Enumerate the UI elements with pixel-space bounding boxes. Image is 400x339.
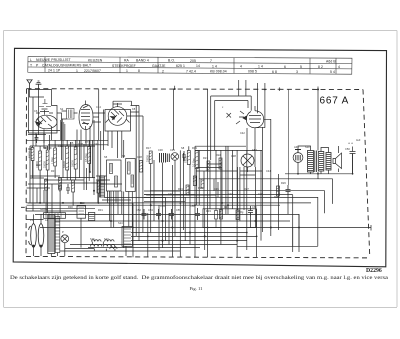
- field coil: [326, 153, 331, 171]
- wire V2 to V3: [77, 113, 105, 172]
- svg-text:R3: R3: [51, 169, 55, 173]
- svg-text:4: 4: [338, 65, 340, 69]
- header table: [28, 57, 352, 75]
- svg-text:C31: C31: [170, 148, 175, 152]
- svg-text:1 4: 1 4: [258, 65, 263, 69]
- svg-text:1: 1: [76, 69, 78, 73]
- capacitor C9: [182, 151, 186, 161]
- svg-text:RA: RA: [124, 59, 130, 63]
- wire rails crossing left: [26, 203, 133, 256]
- capacitor C4: [195, 208, 200, 220]
- wire V1 plate loop: [44, 111, 78, 160]
- mid right tier wires: [196, 146, 262, 214]
- resistor R19: [195, 151, 198, 169]
- svg-text:S6: S6: [122, 154, 126, 158]
- grid cap marks above V1: [39, 99, 51, 107]
- svg-text:8 2: 8 2: [318, 65, 323, 69]
- svg-text:S5: S5: [104, 155, 108, 159]
- svg-text:R24: R24: [178, 187, 183, 191]
- part value labels: [28, 105, 361, 241]
- capacitor C10: [35, 134, 39, 143]
- svg-text:0,5 Meg: 0,5 Meg: [85, 153, 88, 162]
- svg-text:2: 2: [162, 69, 164, 73]
- svg-text:24 1 1P: 24 1 1P: [48, 69, 61, 73]
- loudspeaker cone: [333, 153, 342, 169]
- svg-text:C9: C9: [43, 146, 47, 150]
- resistor R7: [88, 147, 91, 164]
- resistor R5: [66, 146, 69, 170]
- tuning coil L1 ladder: [48, 215, 55, 254]
- capacitor C2: [156, 209, 161, 220]
- svg-text:25000: 25000: [44, 161, 47, 168]
- tube V2 pentode: [79, 101, 93, 130]
- capacitor C1: [142, 209, 147, 220]
- svg-text:7 42.4: 7 42.4: [186, 69, 196, 73]
- svg-text:205: 205: [190, 59, 196, 63]
- svg-text:10000: 10000: [36, 161, 39, 168]
- wire bottom verticals: [133, 146, 299, 257]
- wire tuning indicator: [241, 154, 254, 172]
- IF can lower verticals: [102, 191, 133, 228]
- svg-text:2217/5607: 2217/5607: [84, 69, 101, 73]
- resistor R4: [54, 148, 57, 166]
- svg-text:C21: C21: [94, 142, 99, 146]
- svg-text:C53: C53: [148, 208, 153, 212]
- svg-text:8: 8: [138, 69, 140, 73]
- svg-text:R27: R27: [244, 187, 249, 191]
- tube V3 shield box: [105, 110, 131, 132]
- svg-text:NIEUWE PRIJSLIJST: NIEUWE PRIJSLIJST: [36, 58, 71, 62]
- svg-text:C28: C28: [137, 155, 142, 159]
- cathode wire bundle: [61, 119, 65, 140]
- wire V3 outputs: [104, 101, 143, 158]
- svg-text:R21: R21: [203, 156, 208, 160]
- svg-text:R1: R1: [28, 147, 32, 151]
- svg-text:625 1: 625 1: [176, 64, 185, 68]
- svg-text:R19: R19: [192, 146, 197, 150]
- svg-text:C44: C44: [266, 169, 271, 173]
- wire B+ staircase rails: [26, 179, 371, 251]
- resistor R22: [201, 179, 204, 188]
- smoothing capacitor C+: [348, 142, 356, 174]
- resistor R11: [97, 181, 100, 193]
- svg-text:R30: R30: [68, 205, 73, 209]
- wire mid verticals: [94, 120, 143, 248]
- capacitor C6: [286, 185, 291, 196]
- resistor R8: [45, 179, 48, 190]
- wire left mid connections: [30, 140, 98, 213]
- resistor R14: [207, 161, 210, 171]
- svg-text:C6: C6: [34, 109, 38, 113]
- svg-text:BAND 4: BAND 4: [136, 59, 149, 63]
- hf choke 1: [91, 240, 102, 247]
- svg-text:EB4: EB4: [252, 148, 257, 152]
- svg-text:50000: 50000: [63, 161, 66, 168]
- top feed stubs: [175, 80, 318, 128]
- svg-text:S10: S10: [305, 145, 310, 149]
- svg-text:3: 3: [296, 70, 298, 74]
- svg-text:1 4: 1 4: [212, 64, 217, 68]
- svg-text:S16: S16: [90, 237, 95, 241]
- hf choke 2: [104, 240, 115, 247]
- rotated resistor labels: [29, 151, 196, 168]
- solder junction blobs: [39, 190, 300, 242]
- svg-text:0,2 Meg: 0,2 Meg: [193, 158, 196, 167]
- resistor R12: [220, 210, 223, 220]
- svg-text:GRAM: GRAM: [40, 207, 48, 211]
- svg-text:De schakelaars zijn getekend i: De schakelaars zijn getekend in korte go…: [10, 274, 389, 281]
- volume control coil dark: [100, 176, 105, 197]
- svg-text:C55: C55: [176, 208, 181, 212]
- wire aerial input: [30, 89, 45, 147]
- svg-text:AZ1: AZ1: [294, 145, 299, 149]
- svg-text:S2: S2: [60, 107, 64, 111]
- svg-text:C50: C50: [345, 147, 350, 151]
- junction dots: [61, 145, 354, 237]
- svg-text:70000: 70000: [185, 156, 188, 163]
- svg-text:C40: C40: [258, 192, 263, 196]
- resistor R18: [187, 151, 190, 165]
- svg-text:50000: 50000: [29, 151, 32, 158]
- screen feed wire: [287, 90, 289, 186]
- svg-text:R33: R33: [206, 209, 211, 213]
- resistor R3: [46, 150, 49, 170]
- svg-text:C30: C30: [158, 148, 163, 152]
- svg-text:R17: R17: [146, 146, 151, 150]
- IF can 2 coils: [126, 159, 136, 192]
- svg-text:K8: K8: [132, 107, 136, 111]
- tube V1 screen box: [29, 90, 58, 134]
- svg-text:S8: S8: [181, 146, 185, 150]
- svg-text:1 Meg: 1 Meg: [51, 157, 54, 164]
- svg-text:C14: C14: [96, 105, 101, 109]
- svg-text:5 4: 5 4: [330, 70, 335, 74]
- svg-text:T: T: [30, 63, 32, 67]
- svg-text:Fig. 11: Fig. 11: [190, 286, 204, 291]
- coupling transformer T1: [67, 109, 75, 120]
- resistor R1: [31, 148, 34, 161]
- svg-text:R22: R22: [216, 153, 221, 157]
- switch contact S1: [171, 153, 179, 161]
- resistor R20: [140, 161, 143, 173]
- resistor R10: [72, 180, 75, 192]
- IF can 1: [107, 160, 122, 191]
- svg-text:L: L: [30, 58, 32, 62]
- svg-text:098 5: 098 5: [248, 70, 257, 74]
- capacitor block C8: [167, 154, 169, 163]
- resistor R21: [193, 176, 196, 186]
- wire V4 plate right: [247, 119, 271, 236]
- svg-text:S14: S14: [118, 221, 123, 225]
- svg-text:5: 5: [300, 65, 302, 69]
- resistor R15: [219, 158, 222, 169]
- svg-text:4: 4: [240, 65, 242, 69]
- output transformer secondary: [318, 152, 324, 172]
- tube V4 output pentode: [227, 106, 264, 131]
- resistor R23: [186, 185, 189, 195]
- resistor block bottom: [88, 213, 94, 221]
- svg-text:30000: 30000: [72, 160, 75, 167]
- svg-text:B.O.: B.O.: [168, 59, 175, 63]
- wire power box: [203, 209, 257, 228]
- antenna: [27, 79, 33, 88]
- svg-text:GAATJE: GAATJE: [152, 64, 166, 68]
- svg-text:C60: C60: [252, 205, 257, 209]
- svg-text:CATALOGUSNUMMERS BALT: CATALOGUSNUMMERS BALT: [42, 64, 91, 68]
- svg-text:R5: R5: [70, 141, 74, 145]
- svg-text:S17: S17: [104, 237, 109, 241]
- svg-text:D2296: D2296: [366, 268, 382, 274]
- center verticals pack: [136, 106, 237, 258]
- capacitor C11: [58, 182, 62, 192]
- coil L2: [55, 217, 60, 253]
- svg-text:667 A: 667 A: [320, 96, 350, 107]
- header table row text: [30, 58, 340, 74]
- svg-text:C54: C54: [160, 204, 165, 208]
- capacitor C3: [169, 209, 174, 220]
- svg-text:A6d B: A6d B: [326, 60, 336, 64]
- svg-text:6: 6: [284, 65, 286, 69]
- wire V4 grid loop: [211, 96, 252, 160]
- left lower tier wires: [27, 160, 123, 213]
- caption text: [10, 268, 389, 291]
- pilot lamp: [61, 235, 69, 243]
- resistor R2: [39, 151, 42, 170]
- svg-text:C38: C38: [231, 154, 236, 158]
- svg-text:R36: R36: [274, 195, 279, 199]
- svg-text:Rg: Rg: [240, 210, 244, 214]
- svg-text:1: 1: [126, 69, 128, 73]
- svg-text:14: 14: [196, 64, 200, 68]
- output transformer primary: [308, 151, 317, 173]
- wire top section horizontals: [44, 146, 262, 226]
- resistor R16: [277, 186, 280, 196]
- rectifier tube V5: [293, 150, 303, 163]
- svg-text:C18: C18: [78, 142, 83, 146]
- svg-text:20000: 20000: [147, 155, 150, 162]
- frame aerial loop 1: [21, 207, 36, 247]
- svg-text:C52: C52: [136, 208, 141, 212]
- switch wafer box: [77, 206, 86, 218]
- resistor R13: [236, 210, 239, 220]
- svg-text:6 8: 6 8: [272, 70, 277, 74]
- svg-text:KB 098.04: KB 098.04: [210, 70, 227, 74]
- svg-text:STEEKPROEF: STEEKPROEF: [112, 64, 136, 68]
- resistor R6: [74, 147, 77, 169]
- svg-text:C33: C33: [168, 192, 173, 196]
- svg-text:KEUZEN: KEUZEN: [88, 58, 103, 62]
- resistor R17: [149, 151, 152, 164]
- ground symbol: [36, 81, 42, 89]
- svg-text:P: P: [62, 230, 64, 234]
- capacitor C5: [248, 206, 253, 217]
- svg-text:7: 7: [210, 59, 212, 63]
- svg-text:R25: R25: [198, 186, 203, 190]
- svg-text:R31: R31: [98, 208, 103, 212]
- capacitor C12: [66, 184, 70, 194]
- hf choke 3: [110, 247, 117, 249]
- capacitor block C7: [160, 153, 166, 163]
- left input band wires: [26, 131, 108, 190]
- svg-text:C36: C36: [214, 187, 219, 191]
- wire af rails: [144, 146, 208, 257]
- wire right feed rails: [285, 146, 353, 179]
- svg-text:+ +: + +: [348, 142, 353, 146]
- svg-text:C42: C42: [240, 131, 245, 135]
- sheet frame: [13, 48, 386, 266]
- svg-text:R7: R7: [85, 140, 89, 144]
- frame aerial loop 2: [32, 224, 44, 248]
- power box internals: [215, 209, 218, 228]
- tube V1 octode: [36, 109, 58, 129]
- chassis dashed outline: [26, 89, 370, 258]
- gram pickup box: [44, 213, 66, 219]
- svg-text:R26: R26: [281, 181, 286, 185]
- tube V3 heptode: [106, 103, 130, 125]
- resistor R9: [59, 178, 62, 190]
- wave switch box: [122, 227, 133, 247]
- junction dots on dashed rail: [174, 88, 319, 90]
- wire top feed long verticals: [99, 89, 318, 160]
- svg-text:4uF: 4uF: [356, 138, 361, 142]
